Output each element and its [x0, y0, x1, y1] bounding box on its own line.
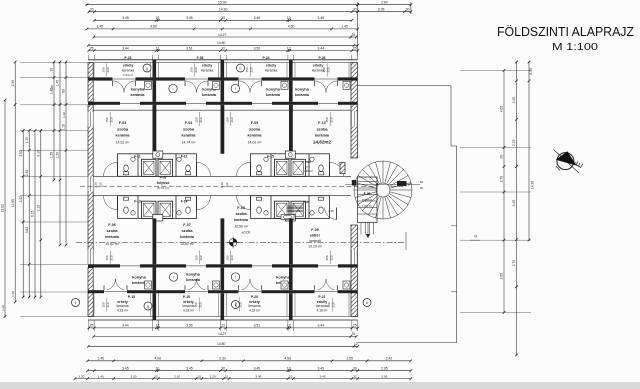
svg-text:kerámia: kerámia: [234, 218, 249, 222]
svg-text:esh: esh: [305, 160, 311, 164]
level marker circle: [229, 239, 237, 247]
svg-text:2.65: 2.65: [499, 273, 503, 280]
left dimension column inner: [65, 62, 67, 245]
svg-text:1.10: 1.10: [220, 182, 224, 188]
svg-text:3.51: 3.51: [186, 46, 193, 50]
svg-text:szoba: szoba: [117, 127, 129, 132]
stair lower flight with arrow: [360, 223, 362, 235]
left dimension column 6: [40, 131, 42, 298]
svg-text:1.25: 1.25: [50, 152, 54, 159]
balcony band dividers top: [153, 60, 157, 78]
svg-text:2.70: 2.70: [512, 140, 516, 147]
svg-text:kerámia: kerámia: [131, 93, 146, 97]
svg-text:folyosó: folyosó: [157, 181, 171, 185]
svg-text:konyha: konyha: [131, 87, 145, 92]
svg-text:kerámia: kerámia: [116, 134, 131, 138]
svg-text:1.45: 1.45: [97, 25, 104, 29]
svg-text:30: 30: [353, 367, 357, 371]
door arc F-09 to esh: [325, 208, 337, 220]
outer wall left hatched: [88, 63, 93, 102]
extension lines building to bottom dims: [88, 320, 90, 331]
svg-text:12: 12: [221, 46, 225, 50]
svg-text:210: 210: [99, 182, 103, 187]
outer wall top: [88, 59, 358, 61]
svg-text:2.10: 2.10: [174, 374, 180, 378]
svg-text:kerámia: kerámia: [248, 304, 260, 308]
svg-text:150: 150: [325, 255, 329, 260]
svg-text:1.45: 1.45: [97, 357, 104, 361]
top dimension row 15.00: [86, 4, 360, 6]
svg-text:F-07: F-07: [183, 223, 190, 227]
outer wall bottom: [88, 319, 358, 321]
svg-text:150: 150: [322, 67, 326, 72]
svg-text:30: 30: [221, 367, 225, 371]
svg-text:12: 12: [287, 46, 291, 50]
svg-text:2.20: 2.20: [130, 374, 136, 378]
svg-text:1,54 m²: 1,54 m²: [123, 73, 133, 77]
svg-text:20: 20: [90, 8, 94, 12]
svg-text:10: 10: [289, 374, 293, 378]
svg-text:1.10: 1.10: [94, 182, 98, 188]
svg-text:P-20: P-20: [251, 295, 258, 299]
bottom dimension row 14.80: [88, 345, 357, 347]
svg-text:19.62: 19.62: [1, 204, 5, 212]
svg-text:19,19 m²: 19,19 m²: [308, 245, 323, 249]
svg-text:10: 10: [224, 374, 228, 378]
svg-text:2.52: 2.52: [19, 150, 23, 157]
svg-text:1.45: 1.45: [50, 85, 54, 91]
section marker D: [470, 239, 480, 241]
svg-text:150: 150: [102, 67, 106, 72]
svg-text:150: 150: [190, 67, 194, 72]
svg-text:wc: wc: [306, 165, 310, 169]
svg-text:P-21: P-21: [318, 295, 325, 299]
svg-text:12: 12: [221, 324, 225, 328]
wall stub right of corridor: [352, 180, 357, 186]
svg-text:4.90: 4.90: [154, 357, 161, 361]
svg-text:30: 30: [50, 68, 54, 72]
svg-text:2.70: 2.70: [512, 260, 516, 267]
kitchen-room wall top: [88, 102, 358, 105]
svg-text:erkély: erkély: [313, 64, 323, 68]
svg-text:150: 150: [327, 302, 331, 307]
svg-text:P-26: P-26: [319, 56, 326, 60]
room-kitchen wall bottom: [88, 264, 358, 267]
top dimension row 3.44 12 segments: [89, 50, 358, 52]
window symbols in right wall: [351, 112, 357, 127]
top dimension row 14.27: [94, 36, 356, 38]
svg-text:150: 150: [226, 117, 230, 122]
svg-text:4,18 m²: 4,18 m²: [317, 308, 328, 312]
svg-text:12: 12: [156, 324, 160, 328]
svg-text:90: 90: [62, 89, 66, 93]
section dash-dot line: [76, 242, 406, 244]
stair landing black wall: [397, 181, 407, 186]
svg-text:1: 1: [75, 301, 77, 305]
svg-text:14,01 m²: 14,01 m²: [248, 141, 263, 145]
svg-text:4,18 m²: 4,18 m²: [183, 308, 194, 312]
svg-text:4,18 m²: 4,18 m²: [117, 308, 128, 312]
bathroom pod cluster upper left F-11 F-12: [118, 154, 197, 177]
svg-text:2.52: 2.52: [25, 170, 29, 177]
room band top line: [93, 109, 351, 111]
entry counter with sink: [281, 215, 294, 220]
svg-text:2.35: 2.35: [512, 97, 516, 104]
svg-text:3.45: 3.45: [186, 367, 193, 371]
svg-text:kerámia: kerámia: [182, 134, 197, 138]
svg-text:3.10: 3.10: [36, 150, 40, 157]
right dimension column 4.65 30 2.70 2.65: [503, 70, 505, 312]
svg-text:150: 150: [105, 117, 109, 122]
svg-text:150: 150: [325, 117, 329, 122]
svg-text:25: 25: [90, 324, 94, 328]
balcony band dividers lower: [153, 293, 157, 320]
svg-text:lépcső: lépcső: [362, 198, 371, 202]
svg-text:30: 30: [499, 155, 503, 159]
balcony inner lines bottom: [93, 293, 95, 316]
svg-text:kerámia: kerámia: [182, 304, 194, 308]
svg-text:szoba: szoba: [181, 228, 193, 233]
svg-text:14,74 m²: 14,74 m²: [182, 141, 197, 145]
svg-text:10: 10: [156, 16, 160, 20]
top dimension row 14.80: [88, 44, 357, 46]
svg-text:1.28: 1.28: [11, 291, 15, 297]
kitchen-balcony wall bottom: [88, 290, 358, 293]
svg-text:kerámia: kerámia: [315, 134, 330, 138]
shaft box upper: [153, 151, 163, 158]
svg-text:D: D: [473, 234, 478, 237]
svg-text:P-18: P-18: [128, 295, 135, 299]
top dimension row 14.30: [89, 11, 358, 13]
svg-text:30: 30: [406, 8, 410, 12]
svg-text:3.45: 3.45: [122, 367, 129, 371]
room dividers upper: [153, 105, 157, 154]
bathroom pod cluster upper right F-15 F-16: [251, 154, 330, 177]
svg-text:12,59 m²: 12,59 m²: [234, 224, 249, 228]
svg-text:FÖLDSZINTI ALAPRAJZ: FÖLDSZINTI ALAPRAJZ: [497, 24, 634, 39]
svg-text:konyha: konyha: [186, 272, 200, 277]
svg-text:10: 10: [287, 16, 291, 20]
bottom dimension row 14.27: [94, 335, 356, 337]
svg-text:4.50: 4.50: [150, 25, 157, 29]
svg-text:konyha: konyha: [276, 275, 290, 280]
svg-text:2.30: 2.30: [11, 80, 15, 87]
svg-text:b: b: [240, 66, 242, 70]
svg-text:kerámia: kerámia: [295, 93, 310, 97]
svg-text:F-13: F-13: [134, 200, 141, 204]
svg-text:10: 10: [197, 374, 201, 378]
svg-text:1.10: 1.10: [62, 112, 66, 118]
svg-text:F-05: F-05: [251, 121, 258, 125]
extension lines to right dims: [460, 69, 531, 71]
svg-text:kerámia: kerámia: [266, 93, 281, 97]
svg-text:3.51: 3.51: [254, 324, 261, 328]
svg-text:150: 150: [245, 67, 249, 72]
svg-text:1.45: 1.45: [56, 80, 60, 87]
svg-text:g: g: [146, 66, 148, 70]
svg-text:3.45: 3.45: [255, 374, 261, 378]
bottom dimension row 3.45 segments with 2.95: [88, 370, 411, 372]
bottom dimension row 1.45 4.90 2.30 4.93 1.95 2.42: [88, 360, 411, 362]
balcony inner lines top: [93, 63, 95, 78]
svg-text:60: 60: [420, 186, 424, 190]
svg-text:150: 150: [195, 255, 199, 260]
kitchen door arcs lower: [104, 279, 116, 291]
svg-text:konyha: konyha: [132, 275, 146, 280]
top dimension row 2.05 30: [358, 11, 411, 13]
svg-text:kerámia: kerámia: [105, 235, 120, 239]
svg-text:laminált: laminált: [309, 239, 320, 243]
svg-text:3.44: 3.44: [317, 46, 324, 50]
left dimension column 4: [28, 131, 30, 298]
svg-text:2.70: 2.70: [499, 176, 503, 183]
svg-text:14.27: 14.27: [218, 332, 227, 336]
svg-text:14,82m2: 14,82m2: [313, 140, 332, 145]
svg-text:F-14: F-14: [181, 200, 188, 204]
kitchen appliance boxes lower: [145, 281, 152, 289]
spiral stair: [354, 161, 412, 219]
svg-text:60: 60: [420, 180, 424, 184]
svg-text:F-03: F-03: [119, 121, 126, 125]
svg-text:12: 12: [287, 324, 291, 328]
svg-text:1,98 m²: 1,98 m²: [303, 169, 313, 173]
svg-text:7,69 m²: 7,69 m²: [362, 204, 372, 208]
svg-text:10: 10: [154, 374, 158, 378]
svg-text:esh: esh: [303, 200, 309, 204]
extension lines from building to top dims: [88, 55, 90, 60]
extension outline thin: [358, 86, 457, 343]
svg-text:14.27: 14.27: [218, 33, 227, 37]
top dimension row 2.90: [358, 4, 411, 6]
svg-text:14.80: 14.80: [217, 342, 226, 346]
svg-text:F-05: F-05: [364, 192, 371, 196]
svg-text:2.90: 2.90: [381, 1, 388, 5]
svg-text:4,18 m²: 4,18 m²: [249, 308, 260, 312]
svg-text:2.95: 2.95: [381, 367, 388, 371]
svg-text:kerámia: kerámia: [122, 68, 134, 72]
svg-text:30: 30: [221, 16, 225, 20]
svg-text:1.95: 1.95: [346, 357, 353, 361]
svg-text:3.45: 3.45: [317, 16, 324, 20]
entry mat striped: [287, 205, 303, 207]
svg-text:erkély: erkély: [202, 64, 212, 68]
svg-text:2.52: 2.52: [19, 196, 23, 203]
svg-text:F-09: F-09: [311, 228, 318, 232]
svg-text:25: 25: [353, 46, 357, 50]
svg-text:szoba: szoba: [235, 211, 247, 216]
svg-text:3.40: 3.40: [512, 200, 516, 207]
left dimension column 6.15: [34, 131, 36, 298]
svg-text:15.00: 15.00: [218, 1, 227, 5]
svg-text:10: 10: [287, 367, 291, 371]
svg-text:30: 30: [353, 8, 357, 12]
svg-text:kerámia: kerámia: [116, 304, 128, 308]
svg-text:2.42: 2.42: [386, 357, 393, 361]
circled marker left outside: [72, 299, 80, 307]
svg-text:kerámia: kerámia: [201, 68, 213, 72]
svg-text:3.44: 3.44: [122, 46, 129, 50]
left dimension column 19.62 total: [4, 100, 6, 317]
svg-text:kerámia: kerámia: [202, 93, 217, 97]
room door arcs to corridor upper: [104, 162, 118, 176]
svg-text:F-04: F-04: [185, 121, 192, 125]
svg-text:M 1:100: M 1:100: [552, 41, 598, 53]
svg-text:30: 30: [353, 374, 357, 378]
svg-text:F-06: F-06: [108, 223, 115, 227]
right dimension column 2.35 2.70 3.40: [516, 62, 518, 355]
svg-text:14.30: 14.30: [219, 8, 228, 12]
svg-text:1.45: 1.45: [98, 374, 104, 378]
kitchen band dividers lower: [153, 268, 157, 291]
svg-text:14,51 m²: 14,51 m²: [116, 141, 131, 145]
svg-text:12: 12: [156, 46, 160, 50]
svg-text:szoba: szoba: [106, 228, 118, 233]
svg-text:F-05: F-05: [197, 56, 204, 60]
right dimension column third: [528, 62, 530, 240]
svg-text:2:15: 2:15: [328, 209, 334, 213]
kitchen circled markers: [169, 84, 177, 92]
svg-text:6.15: 6.15: [31, 210, 35, 217]
svg-text:150: 150: [195, 117, 199, 122]
bottom dimension row 3.44 12 segments: [89, 327, 358, 329]
balcony circled markers lower: [144, 302, 152, 310]
svg-text:szoba: szoba: [249, 127, 261, 132]
svg-text:kerámia: kerámia: [265, 68, 277, 72]
svg-text:3.45: 3.45: [254, 367, 261, 371]
bottom gray strip: [0, 382, 640, 389]
svg-text:F-11: F-11: [134, 155, 141, 159]
svg-text:kerámia: kerámia: [180, 235, 195, 239]
window symbols in left wall: [88, 112, 94, 127]
svg-text:210: 210: [225, 182, 229, 187]
svg-text:F-02: F-02: [160, 175, 167, 179]
svg-text:2.95: 2.95: [381, 374, 387, 378]
svg-text:±0.00: ±0.00: [242, 231, 251, 235]
left dimension column 5.30 5.30: [22, 131, 24, 298]
svg-text:4.50: 4.50: [288, 25, 295, 29]
svg-text:150: 150: [226, 255, 230, 260]
bathroom pod cluster lower right esh: [251, 196, 330, 219]
svg-text:3.10: 3.10: [36, 205, 40, 212]
svg-text:2.35: 2.35: [529, 68, 533, 75]
svg-text:150: 150: [194, 302, 198, 307]
svg-text:4.65: 4.65: [499, 106, 503, 113]
svg-text:3.50: 3.50: [254, 46, 261, 50]
svg-text:3.45: 3.45: [186, 16, 193, 20]
svg-text:4.93: 4.93: [284, 357, 291, 361]
svg-text:14.80: 14.80: [217, 41, 226, 45]
svg-text:10: 10: [156, 367, 160, 371]
svg-text:F-12: F-12: [181, 155, 188, 159]
room dividers lower: [153, 218, 157, 264]
outer wall right hatched: [351, 63, 358, 158]
bottom dimension row small segments: [75, 378, 411, 380]
svg-text:3.45: 3.45: [254, 16, 261, 20]
left dimension column second: [14, 62, 16, 302]
room door arcs to corridor lower: [104, 196, 118, 210]
svg-text:P-24: P-24: [263, 56, 270, 60]
balcony circled marker: [143, 64, 151, 72]
kitchen circled markers lower: [169, 273, 177, 281]
left dimension column short 2: [59, 62, 61, 245]
svg-text:25: 25: [352, 332, 356, 336]
svg-text:11.00: 11.00: [11, 199, 15, 207]
bathroom pod cluster lower left F-13 F-14: [118, 196, 197, 219]
svg-text:szoba: szoba: [316, 127, 328, 132]
svg-text:3.45: 3.45: [320, 374, 326, 378]
svg-text:3.45: 3.45: [122, 16, 129, 20]
svg-text:konyha: konyha: [266, 87, 280, 92]
extension jog lines: [451, 225, 457, 227]
svg-text:12: 12: [354, 342, 358, 346]
stair straight flight: [358, 177, 378, 223]
corridor walls: [93, 175, 351, 177]
svg-text:kerámia: kerámia: [186, 278, 201, 282]
svg-text:F-08: F-08: [237, 206, 244, 210]
svg-text:3.45: 3.45: [317, 367, 324, 371]
shaft box lower: [153, 215, 163, 222]
svg-text:1.20: 1.20: [1, 305, 5, 311]
balcony-kitchen wall top: [88, 77, 358, 80]
svg-text:3.44: 3.44: [317, 324, 324, 328]
svg-text:3.50: 3.50: [186, 324, 193, 328]
svg-text:g: g: [147, 304, 149, 308]
top dimension row 1.45 4.50: [87, 28, 358, 30]
svg-text:konyha: konyha: [295, 87, 309, 92]
svg-text:2.30: 2.30: [219, 357, 226, 361]
svg-text:F-15: F-15: [267, 155, 274, 159]
svg-text:14.30: 14.30: [531, 181, 535, 189]
top dimension row 3.45 segments: [94, 19, 351, 21]
stair dimension line 60 60: [345, 183, 420, 185]
svg-text:1.20: 1.20: [210, 374, 216, 378]
svg-text:25: 25: [90, 46, 94, 50]
svg-text:P-19: P-19: [183, 295, 190, 299]
svg-text:erkély: erkély: [266, 64, 276, 68]
section line end tick: [405, 232, 407, 250]
svg-text:előtér: előtér: [310, 234, 321, 238]
shaft hatch near stair: [340, 163, 345, 174]
top right corner mini dimension column: [357, 2, 359, 56]
svg-text:6: 6: [366, 301, 368, 305]
extension lines building to left dims: [20, 62, 88, 64]
svg-text:1.25: 1.25: [56, 152, 60, 159]
left dimension column short top: [53, 62, 55, 180]
svg-text:25: 25: [352, 33, 356, 37]
circled marker balcony 6: [363, 299, 371, 307]
svg-text:1.45: 1.45: [341, 25, 348, 29]
north compass: [554, 150, 586, 174]
corridor centerline dashed: [80, 185, 406, 187]
svg-text:150: 150: [102, 302, 106, 307]
svg-text:kerámia: kerámia: [248, 134, 263, 138]
svg-text:erkély: erkély: [123, 64, 133, 68]
svg-text:1.10: 1.10: [25, 137, 29, 144]
svg-text:150: 150: [105, 255, 109, 260]
svg-text:2.05: 2.05: [378, 8, 385, 12]
svg-text:150: 150: [234, 302, 238, 307]
svg-text:1.20: 1.20: [78, 374, 84, 378]
svg-text:3.44: 3.44: [122, 324, 129, 328]
kitchen band dividers: [153, 81, 157, 102]
kitchen appliance boxes upper: [145, 81, 152, 89]
svg-text:3.62: 3.62: [25, 227, 29, 234]
svg-text:(5,73 m²): (5,73 m²): [157, 186, 169, 190]
svg-text:P-23: P-23: [125, 56, 132, 60]
svg-text:szoba: szoba: [183, 127, 195, 132]
kitchen door arcs: [113, 81, 125, 93]
svg-text:1.10: 1.10: [62, 124, 66, 131]
